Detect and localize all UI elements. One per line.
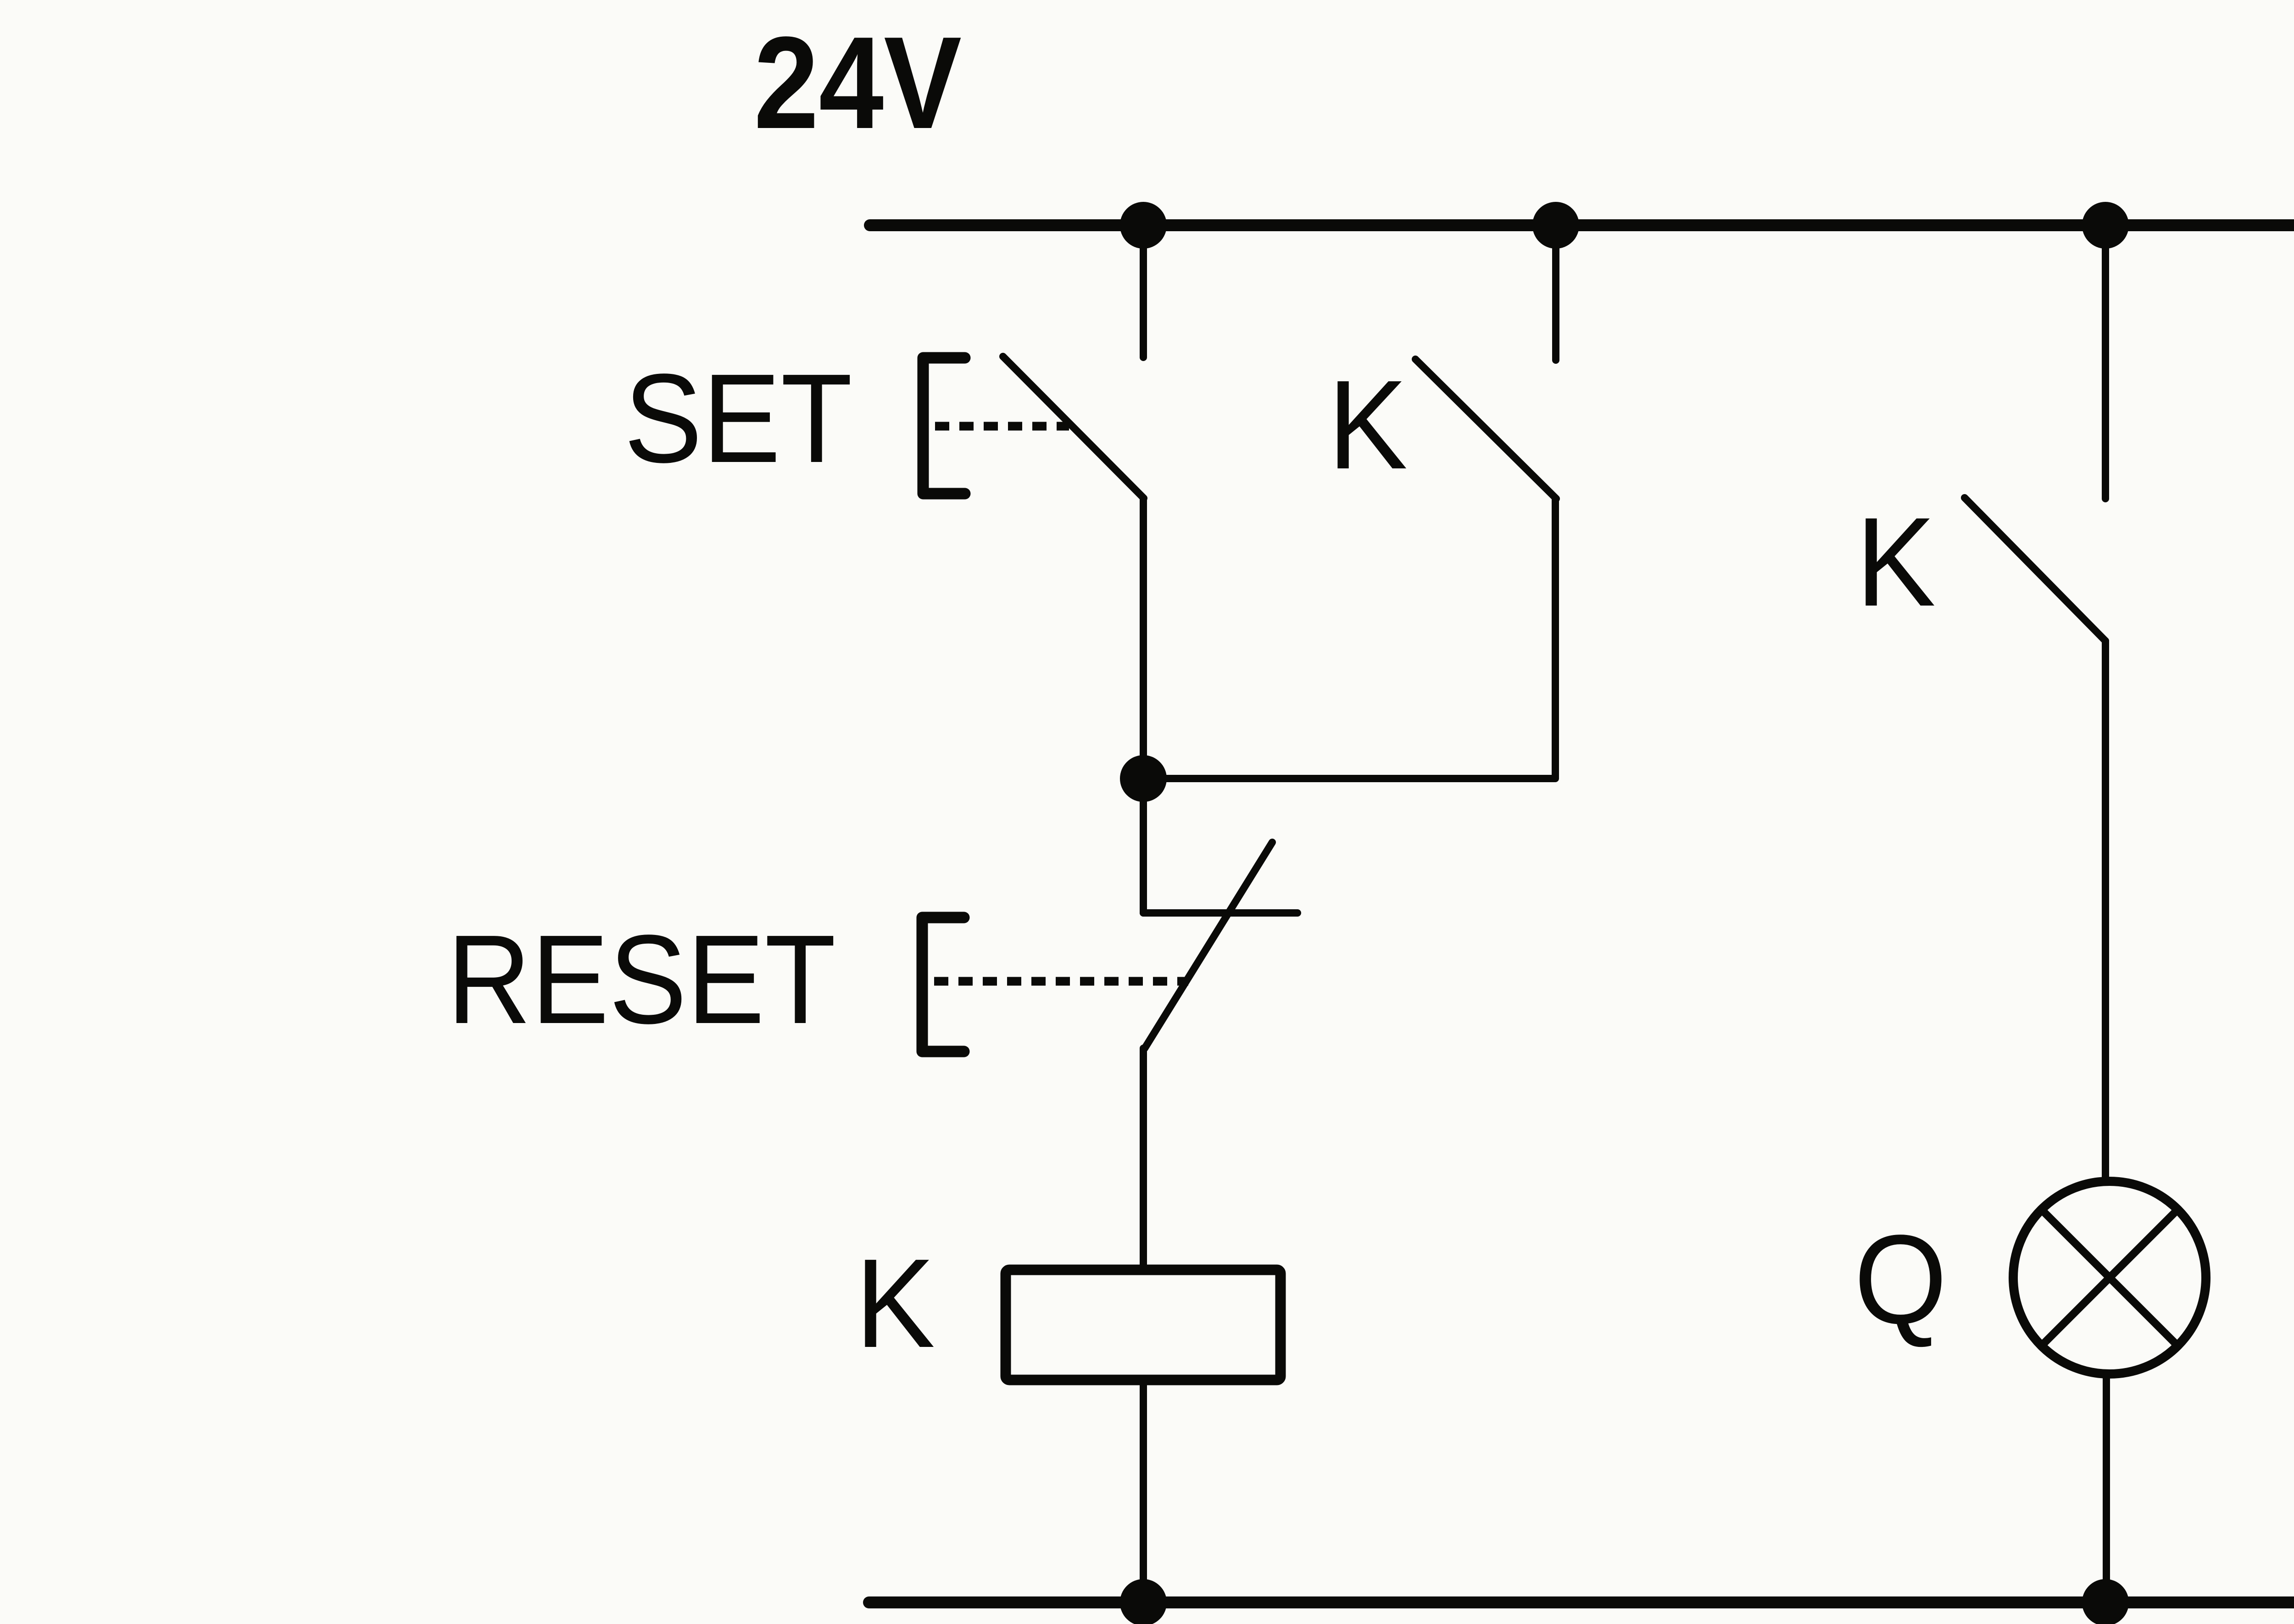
svg-text:K: K (1856, 491, 1936, 633)
pushbutton RESET moving contact blade (NC) (1145, 842, 1272, 1048)
wire lamp Q to bottom rail (2103, 1374, 2110, 1602)
junction node top rail / SET branch (1120, 202, 1167, 249)
relay contact K moving blade (NO, Q branch) (1965, 498, 2105, 641)
RESET fixed contact bar (NC) (1143, 909, 1297, 917)
wire top rail to SET contact (1140, 225, 1147, 357)
SET actuator bracket (923, 358, 965, 494)
wire RESET contact to relay coil (1140, 1048, 1147, 1271)
wire junction A to RESET contact (1140, 779, 1147, 913)
svg-text:24V: 24V (754, 9, 962, 156)
svg-text:RESET: RESET (447, 909, 836, 1050)
junction node top rail / K latch branch (1532, 202, 1579, 249)
wire K contact to lamp Q (2102, 641, 2109, 1180)
top supply rail 24V (870, 219, 2294, 231)
wire top rail to K contact (Q branch) (2102, 225, 2109, 499)
bottom return rail (869, 1596, 2294, 1608)
wire K latch contact to junction A (1143, 499, 1555, 779)
junction node bottom rail / coil branch (1120, 1579, 1167, 1624)
auxiliary contact K moving blade (NO, latch branch) (1415, 359, 1556, 499)
junction node bottom rail / Q branch (2082, 1579, 2129, 1624)
lamp Q cross (2041, 1209, 2178, 1346)
wire top rail to K latch contact (1552, 225, 1559, 360)
pushbutton SET moving contact blade (NO) (1003, 356, 1144, 498)
RESET actuator bracket (922, 918, 964, 1051)
svg-text:SET: SET (624, 348, 852, 489)
svg-text:K: K (1328, 354, 1408, 495)
RESET mechanical link (dashed) (934, 977, 1188, 986)
svg-text:K: K (855, 1233, 935, 1374)
SET mechanical link (dashed) (935, 422, 1069, 431)
wire relay coil to bottom rail (1140, 1380, 1147, 1602)
relay coil K body (1006, 1270, 1281, 1380)
junction node top rail / Q branch (2082, 202, 2129, 249)
svg-text:Q: Q (1854, 1209, 1947, 1350)
junction node A (SET / K latch / RESET) (1120, 755, 1167, 802)
wire SET contact to junction A (1140, 498, 1147, 779)
lamp Q circle (2013, 1181, 2206, 1374)
